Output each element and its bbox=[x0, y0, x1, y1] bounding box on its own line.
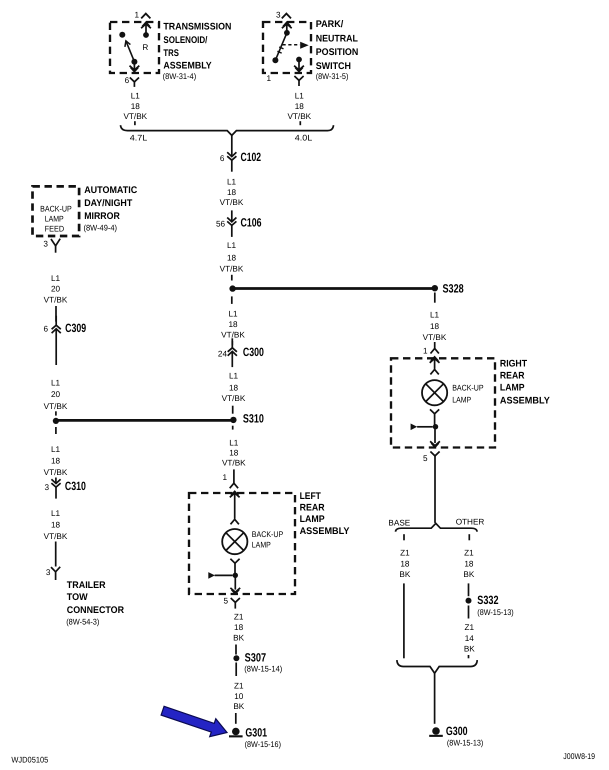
svg-text:14: 14 bbox=[465, 634, 475, 643]
svg-text:10: 10 bbox=[234, 692, 244, 701]
svg-text:6: 6 bbox=[220, 154, 225, 163]
svg-text:REAR: REAR bbox=[500, 370, 525, 381]
svg-text:BASE: BASE bbox=[388, 518, 410, 527]
svg-text:VT/BK: VT/BK bbox=[222, 394, 246, 403]
svg-text:3: 3 bbox=[45, 483, 50, 492]
svg-text:L1: L1 bbox=[229, 371, 239, 380]
svg-text:VT/BK: VT/BK bbox=[220, 198, 244, 207]
svg-text:(8W-15-16): (8W-15-16) bbox=[245, 740, 282, 749]
svg-text:5: 5 bbox=[223, 596, 228, 605]
svg-text:18: 18 bbox=[229, 449, 239, 458]
svg-text:CONNECTOR: CONNECTOR bbox=[67, 605, 124, 616]
svg-text:LEFT: LEFT bbox=[300, 491, 321, 502]
svg-text:5: 5 bbox=[423, 454, 428, 463]
svg-text:18: 18 bbox=[464, 560, 474, 569]
svg-text:6: 6 bbox=[44, 324, 49, 333]
svg-text:C106: C106 bbox=[241, 216, 262, 230]
svg-text:4.0L: 4.0L bbox=[295, 133, 313, 142]
svg-text:VT/BK: VT/BK bbox=[287, 112, 311, 121]
svg-text:FEED: FEED bbox=[45, 224, 65, 233]
svg-text:S328: S328 bbox=[443, 282, 464, 296]
svg-text:BACK-UP: BACK-UP bbox=[452, 384, 484, 393]
svg-text:BK: BK bbox=[399, 570, 410, 579]
svg-text:VT/BK: VT/BK bbox=[123, 112, 147, 121]
svg-text:ASSEMBLY: ASSEMBLY bbox=[163, 61, 212, 72]
svg-text:Z1: Z1 bbox=[234, 613, 244, 622]
svg-text:(8W-15-13): (8W-15-13) bbox=[477, 608, 514, 617]
svg-text:TRANSMISSION: TRANSMISSION bbox=[163, 22, 231, 33]
svg-text:18: 18 bbox=[234, 623, 244, 632]
svg-text:18: 18 bbox=[51, 520, 61, 529]
svg-text:BK: BK bbox=[464, 645, 475, 654]
svg-text:BK: BK bbox=[233, 634, 244, 643]
svg-text:LAMP: LAMP bbox=[45, 215, 64, 224]
svg-text:BK: BK bbox=[463, 570, 474, 579]
svg-text:L1: L1 bbox=[51, 445, 61, 454]
svg-text:18: 18 bbox=[430, 322, 440, 331]
svg-text:L1: L1 bbox=[295, 91, 305, 100]
svg-text:1: 1 bbox=[223, 473, 228, 482]
svg-text:PARK/: PARK/ bbox=[316, 19, 344, 30]
svg-text:(8W-15-13): (8W-15-13) bbox=[447, 738, 484, 747]
svg-text:C310: C310 bbox=[65, 479, 86, 493]
svg-text:AUTOMATIC: AUTOMATIC bbox=[84, 185, 137, 196]
svg-text:LAMP: LAMP bbox=[452, 395, 471, 404]
svg-text:S332: S332 bbox=[477, 593, 498, 607]
svg-text:(8W-15-14): (8W-15-14) bbox=[244, 665, 282, 674]
svg-text:BACK-UP: BACK-UP bbox=[252, 530, 284, 539]
svg-text:TRAILER: TRAILER bbox=[67, 580, 106, 591]
svg-text:VT/BK: VT/BK bbox=[44, 402, 68, 411]
svg-text:24: 24 bbox=[218, 349, 228, 358]
svg-text:(8W-31-5): (8W-31-5) bbox=[316, 72, 349, 81]
svg-text:18: 18 bbox=[227, 254, 237, 263]
svg-text:DAY/NIGHT: DAY/NIGHT bbox=[84, 198, 132, 209]
svg-text:R: R bbox=[142, 43, 148, 52]
svg-text:G301: G301 bbox=[245, 726, 267, 740]
svg-text:(8W-49-4): (8W-49-4) bbox=[84, 224, 118, 233]
svg-text:Z1: Z1 bbox=[465, 623, 475, 632]
svg-text:18: 18 bbox=[229, 384, 239, 393]
svg-text:L1: L1 bbox=[430, 311, 440, 320]
svg-text:SWITCH: SWITCH bbox=[316, 61, 351, 72]
svg-text:C309: C309 bbox=[65, 321, 86, 335]
svg-text:S307: S307 bbox=[245, 650, 267, 664]
svg-text:RIGHT: RIGHT bbox=[500, 359, 527, 370]
svg-text:Z1: Z1 bbox=[464, 549, 474, 558]
svg-text:BK: BK bbox=[233, 702, 244, 711]
svg-text:18: 18 bbox=[227, 188, 237, 197]
svg-text:4.7L: 4.7L bbox=[130, 133, 148, 142]
svg-text:VT/BK: VT/BK bbox=[423, 333, 447, 342]
svg-text:BACK-UP: BACK-UP bbox=[40, 205, 72, 214]
svg-text:C102: C102 bbox=[241, 150, 262, 164]
svg-text:NEUTRAL: NEUTRAL bbox=[316, 33, 358, 44]
svg-text:REAR: REAR bbox=[300, 503, 325, 514]
svg-text:1: 1 bbox=[423, 347, 428, 356]
svg-text:L1: L1 bbox=[229, 439, 239, 448]
svg-text:Z1: Z1 bbox=[234, 682, 244, 691]
svg-text:3: 3 bbox=[276, 11, 281, 20]
svg-text:L1: L1 bbox=[227, 178, 237, 187]
svg-text:VT/BK: VT/BK bbox=[222, 459, 246, 468]
svg-text:VT/BK: VT/BK bbox=[44, 468, 68, 477]
svg-text:VT/BK: VT/BK bbox=[44, 295, 68, 304]
svg-text:L1: L1 bbox=[227, 241, 237, 250]
svg-text:L1: L1 bbox=[228, 309, 238, 318]
svg-text:3: 3 bbox=[43, 239, 48, 248]
svg-text:OTHER: OTHER bbox=[456, 518, 485, 527]
svg-text:L1: L1 bbox=[131, 91, 141, 100]
svg-text:SOLENOID/: SOLENOID/ bbox=[163, 35, 207, 46]
svg-text:G300: G300 bbox=[446, 724, 468, 738]
svg-text:18: 18 bbox=[400, 560, 410, 569]
svg-text:VT/BK: VT/BK bbox=[220, 264, 244, 273]
svg-text:LAMP: LAMP bbox=[252, 541, 271, 550]
svg-text:J00W8-19: J00W8-19 bbox=[563, 752, 595, 761]
svg-text:18: 18 bbox=[228, 320, 238, 329]
svg-text:POSITION: POSITION bbox=[316, 47, 359, 58]
svg-text:VT/BK: VT/BK bbox=[221, 331, 245, 340]
svg-text:L1: L1 bbox=[51, 274, 61, 283]
svg-text:C300: C300 bbox=[243, 345, 264, 359]
svg-text:56: 56 bbox=[216, 220, 226, 229]
svg-text:ASSEMBLY: ASSEMBLY bbox=[300, 526, 350, 537]
svg-text:20: 20 bbox=[51, 285, 61, 294]
svg-text:18: 18 bbox=[131, 102, 141, 111]
svg-text:18: 18 bbox=[295, 102, 305, 111]
svg-text:S310: S310 bbox=[243, 412, 264, 426]
svg-text:(8W-54-3): (8W-54-3) bbox=[66, 618, 99, 627]
svg-text:LAMP: LAMP bbox=[500, 382, 525, 393]
svg-text:6: 6 bbox=[125, 76, 130, 85]
svg-text:MIRROR: MIRROR bbox=[84, 211, 120, 222]
svg-text:WJD05105: WJD05105 bbox=[11, 755, 48, 764]
svg-text:L1: L1 bbox=[51, 509, 61, 518]
svg-text:VT/BK: VT/BK bbox=[44, 532, 68, 541]
svg-text:18: 18 bbox=[51, 456, 61, 465]
svg-text:1: 1 bbox=[266, 74, 271, 83]
svg-text:1: 1 bbox=[134, 11, 139, 20]
svg-text:20: 20 bbox=[51, 390, 61, 399]
svg-text:TRS: TRS bbox=[163, 48, 179, 59]
svg-text:TOW: TOW bbox=[67, 592, 89, 603]
svg-text:LAMP: LAMP bbox=[300, 514, 326, 525]
svg-text:(8W-31-4): (8W-31-4) bbox=[163, 72, 197, 81]
svg-text:ASSEMBLY: ASSEMBLY bbox=[500, 395, 550, 406]
svg-text:Z1: Z1 bbox=[400, 549, 410, 558]
svg-text:L1: L1 bbox=[51, 378, 61, 387]
svg-text:3: 3 bbox=[46, 568, 51, 577]
